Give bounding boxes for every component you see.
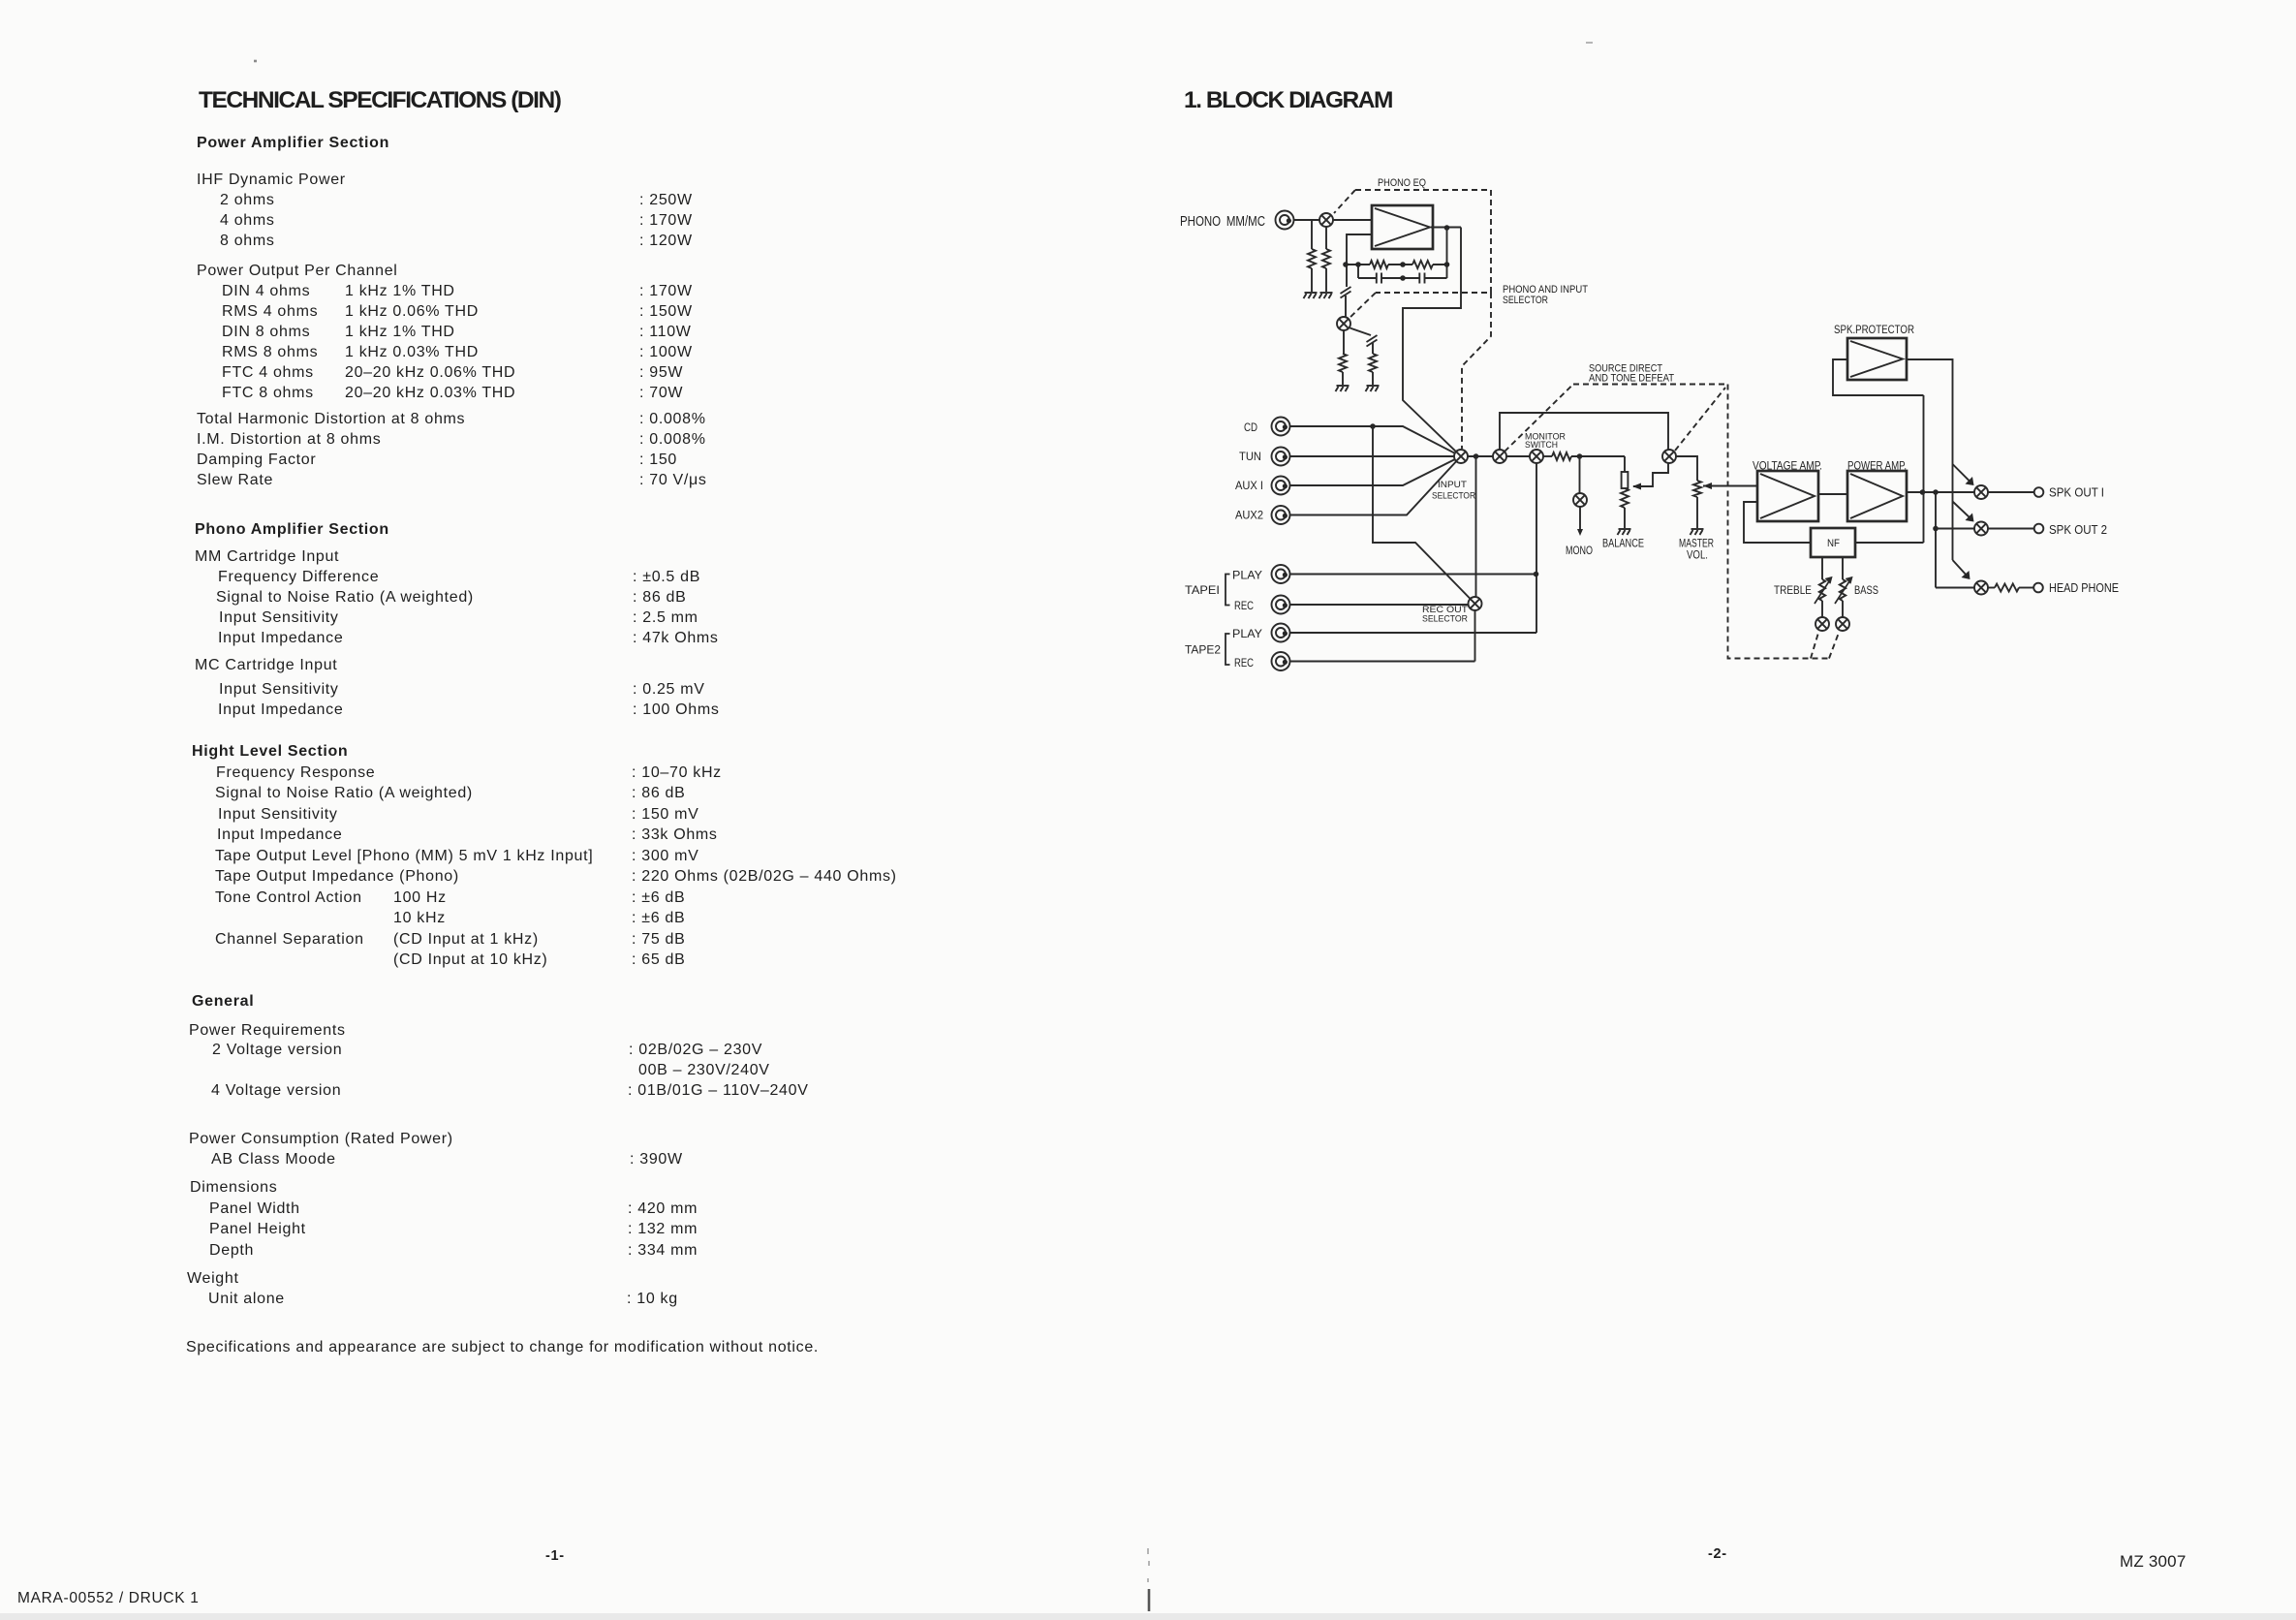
svg-text:SWITCH: SWITCH	[1525, 440, 1558, 451]
svg-text:VOLTAGE AMP.: VOLTAGE AMP.	[1753, 459, 1822, 473]
relay arm to head phone	[1953, 560, 1969, 576]
svg-text:TREBLE: TREBLE	[1774, 583, 1812, 597]
wire node C down to mono switch	[1579, 456, 1581, 493]
node CD tap junction	[1370, 423, 1376, 429]
wire balance wiper to S7	[1633, 463, 1668, 486]
svg-text:PLAY: PLAY	[1232, 627, 1262, 640]
wire head phone line	[1936, 587, 1974, 589]
node A output junction	[1444, 225, 1450, 231]
switch S8 rec out selector	[1469, 597, 1482, 610]
wire S7 to master vol top	[1676, 456, 1697, 481]
wire tape1 rec line to S8	[1290, 604, 1469, 606]
svg-text:PHONO EQ: PHONO EQ	[1378, 177, 1426, 189]
wire NF input from output node	[1855, 542, 1924, 544]
jack CD input	[1272, 418, 1290, 436]
wire monitor vertical to tape play lines	[1536, 463, 1537, 633]
wire S1 to phono EQ amp input	[1333, 219, 1372, 221]
wire branch down from node F	[1935, 492, 1937, 588]
dashed pointer selector to phono group	[1505, 385, 1573, 452]
wire U1 output to node A	[1431, 227, 1461, 229]
ground under R2	[1319, 293, 1333, 298]
resistor R4 feedback	[1412, 261, 1433, 268]
resistor R3 feedback	[1370, 261, 1388, 268]
relay arm to SPK OUT1	[1953, 464, 1972, 483]
switch S12 treble defeat	[1815, 617, 1829, 631]
feedback bottom rail	[1358, 277, 1447, 279]
resistor R5 MC load	[1339, 354, 1347, 372]
wire left rail vertical	[1357, 265, 1359, 278]
svg-text:PLAY: PLAY	[1232, 569, 1262, 582]
wire tape2 rec line	[1290, 661, 1475, 663]
svg-text:SELECTOR: SELECTOR	[1422, 614, 1468, 625]
svg-text:INPUT: INPUT	[1438, 480, 1467, 490]
op-amp U1 phono EQ block	[1372, 205, 1433, 249]
svg-text:REC: REC	[1234, 599, 1254, 612]
wire AUX1 line to selector	[1290, 459, 1455, 485]
potentiometer BALANCE	[1624, 456, 1626, 472]
svg-text:TAPEI: TAPEI	[1185, 583, 1220, 597]
svg-text:NF: NF	[1827, 538, 1840, 549]
switch S11 head phone relay	[1974, 581, 1988, 595]
jack PHONO MM/MC input	[1276, 211, 1294, 230]
jack TAPE1 REC	[1272, 596, 1290, 614]
switch S9 spk out1 relay	[1974, 485, 1988, 499]
node C after R7	[1577, 453, 1583, 459]
wire phono jack to switch S1	[1294, 219, 1319, 221]
wire node B down to rec out selector	[1475, 456, 1477, 597]
switch S10 spk out2 relay	[1974, 522, 1988, 536]
wire to SPK OUT2 terminal	[1988, 528, 2034, 530]
wire S11 to resistor R8	[1988, 587, 1995, 589]
wire U2 to U3	[1818, 493, 1847, 495]
wire NF to bass pot	[1842, 557, 1844, 579]
switch S7 source direct out	[1662, 450, 1676, 463]
node F output branch junction	[1933, 489, 1939, 495]
wire to SPK OUT1 terminal	[1988, 491, 2034, 493]
svg-text:SPK OUT 2: SPK OUT 2	[2049, 522, 2107, 537]
op-amp U2 voltage amp	[1757, 471, 1818, 521]
bracket TAPE2	[1226, 634, 1230, 665]
ground under R1	[1304, 293, 1318, 298]
wire mono arrow down	[1579, 507, 1581, 531]
svg-text:HEAD PHONE: HEAD PHONE	[2049, 580, 2119, 595]
wire output down-step to input selector	[1403, 228, 1461, 452]
jack AUX2 input	[1272, 506, 1290, 524]
capacitor C4 slash on MC branch	[1367, 335, 1378, 347]
svg-text:SELECTOR: SELECTOR	[1503, 295, 1548, 306]
ground under balance	[1618, 529, 1631, 535]
ground under R5	[1336, 386, 1350, 391]
wire U1 inverting input tap	[1347, 234, 1372, 287]
node E power out junction	[1920, 489, 1926, 495]
wire tape1 play line	[1290, 574, 1536, 576]
wire spk out2 line	[1936, 528, 1974, 530]
jack TUN input	[1272, 448, 1290, 466]
wire CD line to selector	[1290, 426, 1455, 453]
scan bottom edge strip	[0, 1613, 2296, 1620]
wire S8 down to tape2 rec line	[1474, 610, 1476, 662]
dashed link phono and input selector	[1462, 293, 1491, 449]
svg-text:SELECTOR: SELECTOR	[1432, 491, 1475, 502]
svg-text:MONO: MONO	[1566, 544, 1593, 557]
junction dots on feedback ladder	[1343, 262, 1349, 267]
node B rec-out tap	[1474, 453, 1479, 459]
svg-text:SPK OUT I: SPK OUT I	[2049, 485, 2104, 500]
svg-text:PHONO MM/MC: PHONO MM/MC	[1180, 213, 1265, 230]
terminal HEAD PHONE	[2033, 583, 2043, 593]
wire right rail vertical	[1446, 228, 1448, 278]
wire tape2 play line	[1290, 632, 1536, 634]
bracket TAPE1	[1226, 575, 1230, 606]
terminal SPK OUT2	[2034, 524, 2044, 534]
technical specifications text column	[197, 136, 389, 151]
wire AUX2 line to selector	[1290, 461, 1456, 514]
switch S13 bass defeat	[1836, 617, 1849, 631]
wire S4 to monitor switch	[1506, 455, 1530, 457]
wire selector to S4	[1468, 455, 1493, 457]
right page title	[1184, 89, 1392, 113]
ground under master vol	[1691, 529, 1704, 535]
wire NF to voltage amp feedback	[1744, 502, 1811, 543]
footer page number 1	[545, 1549, 565, 1564]
wire master wiper to voltage amp	[1703, 485, 1757, 487]
potentiometer MASTER VOL	[1693, 481, 1701, 497]
capacitor C2	[1377, 273, 1381, 284]
scan speck top	[1586, 42, 1593, 44]
wire TUN line to selector	[1290, 455, 1454, 457]
potentiometer BASS	[1840, 579, 1846, 601]
resistor R8 head phone	[1995, 584, 2019, 592]
resistor R6 MC load	[1369, 354, 1377, 372]
node D tape1 play junction	[1534, 572, 1539, 577]
wire S2 diagonal branch	[1350, 328, 1372, 336]
svg-text:SPK.PROTECTOR: SPK.PROTECTOR	[1834, 323, 1914, 336]
svg-text:BASS: BASS	[1854, 583, 1878, 597]
op-amp U3 power amp	[1847, 471, 1907, 521]
capacitor C1 slash on feedback leg	[1341, 287, 1351, 298]
svg-text:BALANCE: BALANCE	[1602, 537, 1644, 550]
svg-text:TUN: TUN	[1239, 450, 1261, 463]
terminal SPK OUT1	[2034, 487, 2044, 497]
dashed box SOURCE DIRECT AND TONE DEFEAT	[1573, 385, 1839, 659]
switch S3 input selector	[1454, 450, 1468, 463]
relay arm to SPK OUT2	[1953, 502, 1972, 520]
wire CD tap down to rec-out step	[1373, 426, 1471, 599]
wire R7 to balance	[1571, 455, 1625, 457]
potentiometer TREBLE	[1819, 579, 1825, 601]
jack TAPE1 PLAY	[1272, 565, 1290, 583]
block U4 NF network	[1811, 528, 1855, 557]
left page title	[199, 89, 560, 113]
svg-text:CD: CD	[1244, 421, 1257, 434]
resistor R7	[1552, 452, 1571, 460]
switch S1 phono input	[1319, 213, 1333, 227]
svg-text:REC: REC	[1234, 656, 1254, 670]
op-amp U5 speaker protector	[1847, 338, 1907, 380]
svg-text:AND TONE DEFEAT: AND TONE DEFEAT	[1589, 373, 1674, 385]
wire protector right leg	[1907, 359, 1953, 560]
jack TAPE2 PLAY	[1272, 624, 1290, 642]
wire monitor switch to resistor R7	[1543, 455, 1552, 457]
dashed box PHONO EQ	[1334, 190, 1491, 320]
svg-text:TAPE2: TAPE2	[1185, 643, 1221, 657]
resistor R1 phono load	[1311, 220, 1313, 249]
switch S4 source direct in	[1493, 450, 1506, 463]
scan fold mark center bottom	[1148, 1548, 1149, 1582]
ground under R6	[1366, 386, 1380, 391]
svg-text:AUX I: AUX I	[1235, 479, 1263, 492]
wire protector input riser	[1923, 395, 1925, 543]
footer model code	[2120, 1553, 2187, 1570]
svg-text:POWER AMP.: POWER AMP.	[1847, 459, 1907, 473]
wire U3 output	[1907, 491, 1974, 493]
node G spk2 junction	[1933, 526, 1939, 532]
switch S5 monitor switch	[1530, 450, 1543, 463]
svg-text:VOL.: VOL.	[1687, 548, 1708, 562]
switch S2 MM/MC select	[1337, 317, 1350, 330]
resistor R2 phono load	[1325, 227, 1327, 249]
footer page number 2	[1708, 1547, 1727, 1562]
footer doc code	[17, 1591, 200, 1606]
jack TAPE2 REC	[1272, 652, 1290, 670]
jack AUX1 input	[1272, 477, 1290, 495]
wire S2 to resistor R5	[1343, 330, 1345, 354]
wire R8 to terminal	[2019, 587, 2033, 589]
wire protector left leg	[1833, 359, 1924, 395]
switch S6 mono	[1573, 493, 1587, 507]
wire source direct bypass top	[1500, 413, 1668, 450]
svg-text:AUX2: AUX2	[1235, 509, 1263, 522]
capacitor C3	[1419, 273, 1424, 284]
wire NF to treble pot	[1821, 557, 1823, 579]
scan speck left	[254, 60, 257, 63]
dashed pointer S7 to corner	[1675, 388, 1725, 451]
feedback top rail with junctions	[1346, 264, 1447, 265]
